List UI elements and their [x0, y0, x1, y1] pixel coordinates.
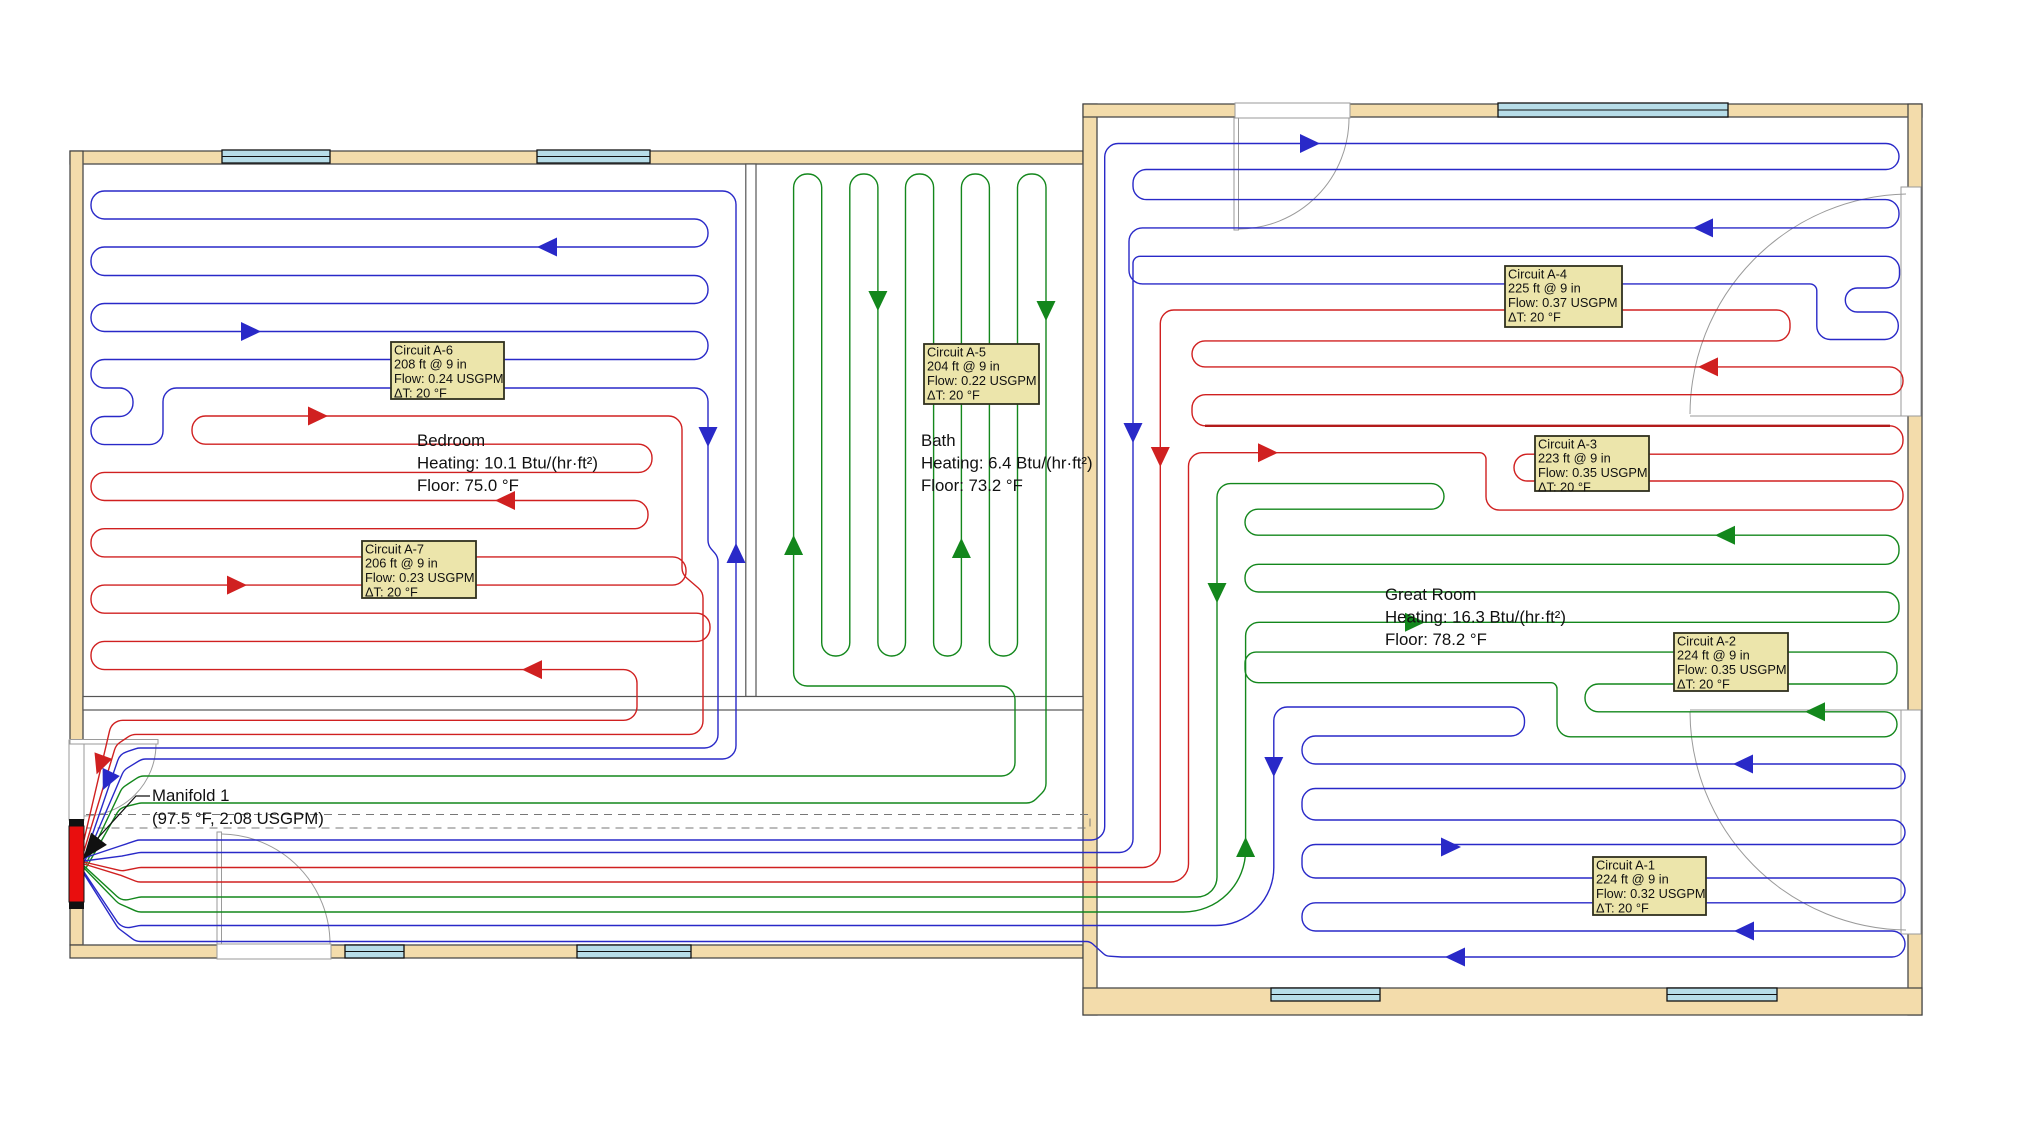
svg-text:Flow: 0.24 USGPM: Flow: 0.24 USGPM [394, 371, 504, 386]
svg-text:Floor: 73.2 °F: Floor: 73.2 °F [921, 476, 1023, 495]
svg-text:Flow: 0.37 USGPM: Flow: 0.37 USGPM [1508, 295, 1618, 310]
svg-text:Flow: 0.32 USGPM: Flow: 0.32 USGPM [1596, 886, 1706, 901]
svg-text:Circuit A-1: Circuit A-1 [1596, 857, 1655, 872]
svg-text:ΔT: 20 °F: ΔT: 20 °F [394, 386, 447, 401]
svg-text:204 ft @ 9 in: 204 ft @ 9 in [927, 359, 1000, 374]
svg-text:ΔT: 20 °F: ΔT: 20 °F [1508, 310, 1561, 325]
svg-text:206 ft @ 9 in: 206 ft @ 9 in [365, 556, 438, 571]
svg-text:Heating: 10.1 Btu/(hr·ft²): Heating: 10.1 Btu/(hr·ft²) [417, 454, 598, 473]
svg-text:Flow: 0.22 USGPM: Flow: 0.22 USGPM [927, 373, 1037, 388]
svg-text:ΔT: 20 °F: ΔT: 20 °F [1596, 901, 1649, 916]
svg-text:Flow: 0.35 USGPM: Flow: 0.35 USGPM [1538, 465, 1648, 480]
svg-text:ΔT: 20 °F: ΔT: 20 °F [1538, 480, 1591, 495]
svg-text:ΔT: 20 °F: ΔT: 20 °F [1677, 677, 1730, 692]
svg-text:224 ft @ 9 in: 224 ft @ 9 in [1596, 872, 1669, 887]
svg-text:Circuit A-2: Circuit A-2 [1677, 633, 1736, 648]
svg-text:224 ft @ 9 in: 224 ft @ 9 in [1677, 648, 1750, 663]
svg-text:ΔT: 20 °F: ΔT: 20 °F [927, 388, 980, 403]
svg-text:Circuit A-3: Circuit A-3 [1538, 436, 1597, 451]
svg-text:Circuit A-4: Circuit A-4 [1508, 266, 1567, 281]
svg-text:Circuit A-5: Circuit A-5 [927, 344, 986, 359]
svg-text:Bath: Bath [921, 431, 956, 450]
svg-text:225 ft @ 9 in: 225 ft @ 9 in [1508, 281, 1581, 296]
svg-text:Great Room: Great Room [1385, 585, 1476, 604]
svg-text:Flow: 0.35 USGPM: Flow: 0.35 USGPM [1677, 662, 1787, 677]
svg-text:223 ft @ 9 in: 223 ft @ 9 in [1538, 451, 1611, 466]
svg-text:208 ft @ 9 in: 208 ft @ 9 in [394, 357, 467, 372]
svg-text:Circuit A-7: Circuit A-7 [365, 541, 424, 556]
svg-text:Heating: 16.3 Btu/(hr·ft²): Heating: 16.3 Btu/(hr·ft²) [1385, 608, 1566, 627]
svg-text:Manifold 1: Manifold 1 [152, 786, 229, 805]
svg-text:Floor: 78.2 °F: Floor: 78.2 °F [1385, 630, 1487, 649]
svg-text:Circuit A-6: Circuit A-6 [394, 342, 453, 357]
svg-text:Bedroom: Bedroom [417, 431, 485, 450]
svg-text:Heating: 6.4 Btu/(hr·ft²): Heating: 6.4 Btu/(hr·ft²) [921, 454, 1093, 473]
svg-text:ΔT: 20 °F: ΔT: 20 °F [365, 585, 418, 600]
svg-text:Floor: 75.0 °F: Floor: 75.0 °F [417, 476, 519, 495]
svg-text:Flow: 0.23 USGPM: Flow: 0.23 USGPM [365, 570, 475, 585]
svg-text:(97.5 °F, 2.08 USGPM): (97.5 °F, 2.08 USGPM) [152, 809, 324, 828]
